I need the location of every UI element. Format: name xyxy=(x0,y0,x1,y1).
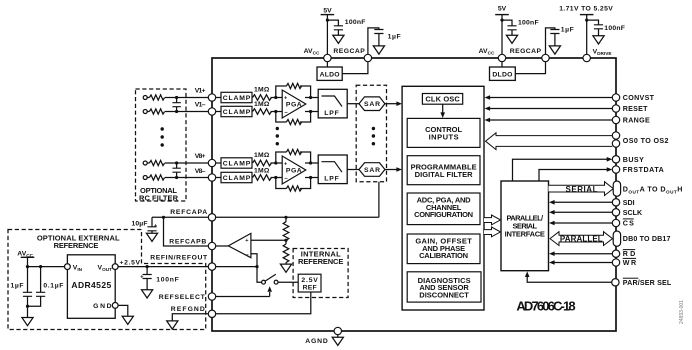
resistor 1M ch8+ xyxy=(252,152,282,166)
wire REFIN net xyxy=(216,266,257,268)
pin REFIN/REFOUT xyxy=(150,255,216,271)
voltage reference 2.5V REF xyxy=(298,274,321,292)
5V supply (left) xyxy=(321,7,335,54)
wire SAR box to reference rail xyxy=(378,182,380,218)
wire RD xyxy=(549,251,612,256)
capacitor 100nF (Vdrive) xyxy=(593,25,625,44)
resistor divider lower xyxy=(280,240,291,272)
pin REFCAPA xyxy=(170,209,216,221)
svg-text:REFIN/REFOUT: REFIN/REFOUT xyxy=(150,255,208,262)
feedback resistor ch8 top xyxy=(276,149,311,163)
pin CONVST xyxy=(612,94,654,102)
wire SAR ch1 to digital block xyxy=(385,101,402,106)
node 0.1uF xyxy=(39,265,42,268)
node ch1+ input xyxy=(274,96,277,99)
input terminal V8- xyxy=(143,176,147,180)
op-amp PGA ch1 xyxy=(282,90,306,118)
wire SCLK xyxy=(549,210,612,215)
svg-text:CALIBRATION: CALIBRATION xyxy=(419,251,468,260)
svg-text:+: + xyxy=(284,95,287,101)
wire BUSY xyxy=(513,157,613,181)
resistor 1M ch1+ xyxy=(252,87,282,101)
wire ADR GND to ground xyxy=(118,305,133,324)
node ch8+ input xyxy=(274,161,277,164)
pin AVcc (analog) xyxy=(304,48,331,62)
filter LPF ch1 xyxy=(318,89,347,118)
switch reference select xyxy=(262,274,299,284)
svg-text:V8+: V8+ xyxy=(195,153,206,160)
svg-text:CLAMP: CLAMP xyxy=(223,161,251,168)
svg-text:SCLK: SCLK xyxy=(623,209,643,217)
bus arrow core to interface 1 xyxy=(484,215,501,225)
pin CS xyxy=(612,219,634,228)
clamp CH8+ xyxy=(216,158,252,168)
wire FRSTDATA xyxy=(539,167,612,181)
ADC SAR ch1 xyxy=(359,97,385,111)
svg-text:100nF: 100nF xyxy=(604,25,625,32)
capacitor 10uF xyxy=(132,221,158,242)
wire PAR/SER SEL xyxy=(525,271,612,282)
digital core block xyxy=(402,86,484,310)
ellipsis RC column xyxy=(161,127,164,146)
capacitor 1uF (REGCAP) xyxy=(373,30,400,55)
svg-text:10µF: 10µF xyxy=(132,221,148,228)
figure number 24893-001 xyxy=(679,300,685,324)
svg-text:5V: 5V xyxy=(498,6,507,13)
capacitor 1uF (REGCAP digital) xyxy=(549,26,573,54)
capacitor RC filter ch1 xyxy=(172,98,180,112)
resistor divider upper xyxy=(283,217,289,240)
svg-text:CONFIGURATION: CONFIGURATION xyxy=(414,210,473,219)
wire SAR ch8 to digital block xyxy=(385,167,402,172)
svg-text:1MΩ: 1MΩ xyxy=(254,87,270,94)
pin FRSTDATA xyxy=(612,166,664,174)
svg-text:100nF: 100nF xyxy=(345,19,366,26)
feedback resistor ch1 top xyxy=(276,83,311,97)
ellipsis PGA column xyxy=(276,127,279,146)
svg-text:CONVST: CONVST xyxy=(623,94,655,102)
wire REGCAP2 to 1uF xyxy=(546,28,555,54)
svg-text:1MΩ: 1MΩ xyxy=(254,101,270,108)
svg-text:REFERENCE: REFERENCE xyxy=(54,241,99,250)
capacitor 1uF external xyxy=(11,267,33,307)
wire CS xyxy=(549,221,612,226)
pin Vdrive xyxy=(583,49,611,62)
wire RANGE xyxy=(485,118,613,123)
bus arrow SERIAL xyxy=(549,182,614,196)
block CLK OSC xyxy=(422,94,462,105)
pin V8- xyxy=(195,168,216,181)
svg-text:RC FILTER: RC FILTER xyxy=(139,194,179,203)
svg-text:100nF: 100nF xyxy=(518,20,539,27)
chip name AD7606C-18 xyxy=(516,299,575,314)
svg-text:CLAMP: CLAMP xyxy=(223,109,251,116)
svg-text:REFSELECT: REFSELECT xyxy=(159,294,206,301)
svg-text:REF: REF xyxy=(303,285,317,292)
pin AGND xyxy=(305,327,343,345)
svg-text:REFGND: REFGND xyxy=(171,306,205,313)
svg-text:CLK OSC: CLK OSC xyxy=(425,95,460,104)
node ch8 out- xyxy=(309,176,312,179)
svg-text:PAR/SER SEL: PAR/SER SEL xyxy=(623,279,672,287)
node: 5V junction right xyxy=(500,19,503,22)
svg-text:DIGITAL FILTER: DIGITAL FILTER xyxy=(415,170,474,179)
node RC V1- xyxy=(175,110,178,113)
1.71V TO 5.25V supply xyxy=(559,6,613,55)
capacitor 0.1uF external xyxy=(28,267,64,307)
svg-text:PGA: PGA xyxy=(286,168,302,175)
input terminal V1- xyxy=(143,110,147,114)
block PARALLEL/SERIAL INTERFACE xyxy=(501,181,549,271)
bus arrow core to interface 2 xyxy=(484,227,501,237)
svg-text:RESET: RESET xyxy=(623,105,648,113)
wire tap to buffer + xyxy=(251,239,286,241)
feedback resistor ch8 bottom xyxy=(276,178,311,192)
wire to 100nF xyxy=(502,20,512,26)
resistor 1M ch8- xyxy=(252,168,282,181)
node REFIN junction xyxy=(255,265,258,268)
svg-text:INTERFACE: INTERFACE xyxy=(505,230,545,239)
svg-text:REFCAPB: REFCAPB xyxy=(169,239,206,246)
regulator ALDO xyxy=(317,62,368,81)
pin REFGND xyxy=(171,306,216,318)
svg-text:24893-001: 24893-001 xyxy=(679,300,685,324)
ADC SAR ch8 xyxy=(359,163,385,177)
svg-text:+: + xyxy=(140,275,143,281)
op-amp reference buffer xyxy=(228,233,251,258)
svg-text:1MΩ: 1MΩ xyxy=(254,152,270,159)
pin RESET xyxy=(612,105,648,113)
svg-text:FRSTDATA: FRSTDATA xyxy=(623,166,664,174)
wire to 100nF xyxy=(587,20,599,25)
pin WR xyxy=(612,258,636,267)
wire REFCAPB to buffer xyxy=(216,245,229,247)
pin RD xyxy=(612,250,635,259)
pin V1- xyxy=(195,102,216,116)
svg-text:SERIAL: SERIAL xyxy=(566,185,598,194)
optional external reference dashed box xyxy=(8,230,206,330)
pin REGCAP (analog) xyxy=(333,48,371,62)
pin DB0 TO DB17 xyxy=(613,231,670,246)
svg-text:DISCONNECT: DISCONNECT xyxy=(419,290,469,299)
node ch8- input xyxy=(274,176,277,179)
node ch1 out+ xyxy=(309,96,312,99)
node divider tap xyxy=(284,239,287,242)
svg-text:REGCAP: REGCAP xyxy=(333,48,365,55)
wire 2.5V REF to REFGND xyxy=(216,292,311,314)
bus arrow PARALLEL xyxy=(550,232,613,246)
resistor RC V8- xyxy=(147,175,212,180)
wire CLK OSC to control inputs xyxy=(440,104,445,118)
wire REFCAPB loop xyxy=(164,217,213,246)
svg-text:BUSY: BUSY xyxy=(623,156,644,164)
svg-text:1MΩ: 1MΩ xyxy=(254,168,270,175)
svg-text:0.1µF: 0.1µF xyxy=(43,283,63,290)
pin REGCAP (digital side) xyxy=(510,48,550,62)
pin SCLK xyxy=(612,209,643,217)
bus arrow OS0-OS2 xyxy=(486,133,613,150)
wire REFGND to ground xyxy=(167,314,209,329)
svg-text:CLAMP: CLAMP xyxy=(223,175,251,182)
wire to switch xyxy=(257,267,262,283)
node 100nF xyxy=(146,265,149,268)
SAR dashed box xyxy=(356,85,386,182)
svg-text:SAR: SAR xyxy=(364,101,380,108)
svg-text:+: + xyxy=(284,161,287,167)
svg-text:DB0 TO DB17: DB0 TO DB17 xyxy=(623,235,671,243)
internal reference dashed box xyxy=(293,249,348,298)
svg-text:REGCAP: REGCAP xyxy=(510,48,542,55)
pin BUSY xyxy=(612,156,644,164)
resistor RC V1+ xyxy=(147,95,212,100)
pin REFCAPB xyxy=(169,239,215,250)
capacitor 100nF (AVcc digital side) xyxy=(506,20,538,44)
pin SDI xyxy=(612,199,634,207)
wire REGCAP to 1uF xyxy=(368,28,379,54)
svg-text:1.71V TO 5.25V: 1.71V TO 5.25V xyxy=(559,6,613,13)
node ch1 out- xyxy=(309,110,312,113)
pin V1+ xyxy=(195,87,216,101)
svg-text:ADR4525: ADR4525 xyxy=(71,280,111,290)
resistor RC V1- xyxy=(147,109,212,114)
node divider top xyxy=(284,216,287,219)
block CONTROL INPUTS xyxy=(407,118,480,147)
svg-text:AD7606C-18: AD7606C-18 xyxy=(516,299,575,314)
svg-text:+: + xyxy=(245,238,248,244)
optional RC filter dashed box xyxy=(136,89,187,203)
pin V8+ xyxy=(195,153,216,167)
wire SDI xyxy=(549,200,612,205)
svg-text:1µF: 1µF xyxy=(11,282,24,289)
svg-text:PGA: PGA xyxy=(286,102,302,109)
switch control arrow from REFSELECT xyxy=(267,286,272,296)
wire PGA ch1 outputs to LPF xyxy=(305,98,318,112)
node RC V1+ xyxy=(175,96,178,99)
pin AVcc (digital side) xyxy=(479,48,506,62)
pin REFSELECT xyxy=(159,293,216,301)
svg-text:CLAMP: CLAMP xyxy=(223,95,251,102)
wire PGA ch8 outputs to LPF xyxy=(305,163,318,178)
input terminal V8+ xyxy=(143,161,147,165)
svg-text:SAR: SAR xyxy=(364,167,380,174)
svg-text:GND: GND xyxy=(93,303,112,310)
op-amp PGA ch8 xyxy=(282,156,306,184)
clamp CH1- xyxy=(216,106,252,116)
feedback resistor ch1 bottom xyxy=(276,112,311,125)
svg-text:+2.5V: +2.5V xyxy=(120,259,141,266)
ground external caps xyxy=(22,306,33,326)
capacitor 100nF (AVcc) xyxy=(333,19,366,43)
pin OS0 TO OS2 xyxy=(612,132,668,147)
input terminal V1+ xyxy=(143,96,147,100)
node RC V8+ xyxy=(175,161,178,164)
wire REFCAPA rail xyxy=(152,217,379,227)
pin RANGE xyxy=(612,116,650,124)
capacitor 100nF external xyxy=(140,267,179,298)
svg-text:V8–: V8– xyxy=(195,168,206,175)
svg-text:REFERENCE: REFERENCE xyxy=(298,257,343,266)
svg-text:CS: CS xyxy=(623,220,634,228)
node ch8 out+ xyxy=(309,161,312,164)
resistor RC V8+ xyxy=(147,160,212,165)
capacitor RC filter ch8 xyxy=(172,163,180,178)
block DIAGNOSTICS AND SENSOR DISCONNECT xyxy=(407,272,481,302)
wire CONVST xyxy=(485,95,613,100)
svg-text:5V: 5V xyxy=(323,7,332,14)
block GAIN OFFSET AND PHASE CALIBRATION xyxy=(407,234,480,264)
wire WR xyxy=(549,260,612,265)
svg-text:AGND: AGND xyxy=(305,338,328,345)
svg-text:100nF: 100nF xyxy=(156,276,179,283)
svg-text:ALDO: ALDO xyxy=(320,72,340,79)
svg-text:V1+: V1+ xyxy=(195,87,206,94)
svg-text:1µF: 1µF xyxy=(388,33,401,40)
pin DoutA-DoutH xyxy=(613,181,683,196)
wire buffer - to REFIN node xyxy=(251,254,257,267)
node cap ground tie xyxy=(26,305,29,308)
supply AVcc external xyxy=(17,250,34,266)
node REFCAPB tie xyxy=(162,216,165,219)
svg-text:LPF: LPF xyxy=(324,176,339,183)
filter LPF ch8 xyxy=(318,155,347,184)
wire to 100nF xyxy=(327,20,338,26)
svg-text:LPF: LPF xyxy=(324,110,339,117)
node: 5V junction xyxy=(326,19,329,22)
block PROGRAMMABLE DIGITAL FILTER xyxy=(407,156,480,185)
wire REFSELECT xyxy=(216,296,270,298)
node RC V8- xyxy=(175,176,178,179)
wire AVcc to Vin xyxy=(28,266,65,268)
block ADC PGA AND CHANNEL CONFIGURATION xyxy=(407,193,480,225)
resistor 1M ch1- xyxy=(252,101,282,114)
wire LPF ch8 to SAR xyxy=(347,169,359,171)
wire RESET xyxy=(485,106,613,111)
svg-text:RANGE: RANGE xyxy=(623,117,650,125)
voltage reference ADR4525 xyxy=(65,255,119,318)
wire Vout to REFIN/REFOUT xyxy=(118,259,208,266)
clamp CH8- xyxy=(216,172,252,182)
svg-text:INPUTS: INPUTS xyxy=(429,133,459,142)
chip outline AD7606C-18 xyxy=(212,58,616,331)
svg-text:WR: WR xyxy=(623,259,636,267)
svg-text:1µF: 1µF xyxy=(561,26,574,33)
svg-text:REFCAPA: REFCAPA xyxy=(170,209,207,216)
node ch1- input xyxy=(274,110,277,113)
clamp CH1+ xyxy=(216,92,252,102)
wire LPF ch1 to SAR xyxy=(347,103,359,105)
node 1uF xyxy=(26,265,29,268)
regulator DLDO xyxy=(490,62,546,81)
svg-text:PARALLEL: PARALLEL xyxy=(560,234,603,243)
svg-text:SDI: SDI xyxy=(623,199,635,207)
svg-text:V1–: V1– xyxy=(195,102,206,109)
svg-text:2.5V: 2.5V xyxy=(301,277,318,284)
svg-text:OS0 TO OS2: OS0 TO OS2 xyxy=(623,137,669,145)
svg-text:DLDO: DLDO xyxy=(492,72,512,79)
pin PAR/SER SEL xyxy=(612,278,672,287)
ellipsis SAR column xyxy=(372,127,375,146)
5V supply (right) xyxy=(495,6,509,55)
node: Vdrive junction xyxy=(585,19,588,22)
